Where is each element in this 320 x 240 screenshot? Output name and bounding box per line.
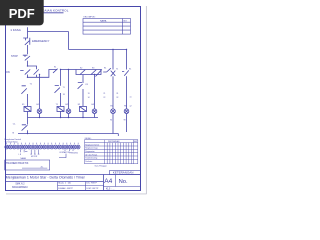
svg-text:K1: K1 — [129, 69, 131, 71]
svg-text:NO: NO — [124, 20, 128, 22]
svg-text:Uji Coba Rangk.: Uji Coba Rangk. — [85, 154, 98, 156]
svg-text:EMERGENCY: EMERGENCY — [32, 39, 50, 43]
svg-text:ON: ON — [6, 71, 10, 74]
svg-text:MOTOR: MOTOR — [31, 156, 38, 158]
svg-text:DIL: RKTP: DIL: RKTP — [87, 183, 98, 185]
svg-text:T1: T1 — [63, 87, 65, 89]
svg-text:x2: x2 — [130, 105, 132, 107]
svg-text:Penilaian: Penilaian — [85, 161, 92, 163]
svg-text:BANJARBARU: BANJARBARU — [12, 186, 28, 189]
svg-text:PDF: PDF — [9, 6, 35, 21]
svg-text:21: 21 — [103, 93, 105, 95]
svg-text:98: 98 — [124, 119, 126, 121]
svg-text:22: 22 — [103, 97, 105, 99]
svg-text:Skala: 1 : tdk: Skala: 1 : tdk — [58, 182, 72, 185]
svg-text:Rangkaian Kontrol: Rangkaian Kontrol — [85, 143, 100, 146]
svg-text:KLS : ....: KLS : .... — [106, 189, 115, 191]
svg-text:NAMA: NAMA — [21, 157, 27, 160]
svg-text:Troubleshooting: Troubleshooting — [85, 157, 97, 160]
svg-text:No.: No. — [119, 179, 128, 185]
svg-text:KELAS :: KELAS : — [85, 137, 92, 140]
svg-text:31: 31 — [116, 93, 118, 95]
svg-text:KELOMPOK :: KELOMPOK : — [84, 17, 97, 19]
svg-text:K1: K1 — [54, 66, 56, 68]
svg-text:96: 96 — [110, 119, 112, 121]
svg-text:K3: K3 — [86, 84, 88, 86]
svg-text:1 FASA: 1 FASA — [10, 28, 21, 32]
svg-text:Terminal Motor: Terminal Motor — [5, 141, 19, 144]
svg-text:Rangkaian Daya: Rangkaian Daya — [85, 148, 98, 150]
svg-text:18: 18 — [63, 94, 65, 96]
svg-text:NAMA: NAMA — [100, 19, 107, 22]
svg-text:KETERANGAN: KETERANGAN — [113, 171, 134, 175]
svg-text:PERTEMUAN: PERTEMUAN — [108, 140, 120, 143]
svg-text:SMK N 2: SMK N 2 — [15, 183, 25, 185]
svg-text:K2: K2 — [80, 67, 82, 69]
svg-text:Guru Pengajar: Guru Pengajar — [95, 165, 108, 168]
svg-text:STOP: STOP — [11, 55, 18, 58]
svg-text:32: 32 — [116, 97, 118, 99]
svg-text:A4: A4 — [104, 178, 112, 185]
svg-text:TRAINER PRAKTIK: TRAINER PRAKTIK — [6, 162, 29, 165]
svg-text:14: 14 — [88, 97, 90, 99]
svg-text:PENGUNCI: PENGUNCI — [70, 152, 79, 154]
svg-text:DIGAM : RKTP: DIGAM : RKTP — [58, 187, 73, 190]
svg-text:20..: 20.. — [41, 166, 44, 168]
svg-text:T1: T1 — [116, 69, 118, 71]
svg-text:Pengawatan: Pengawatan — [85, 150, 94, 153]
svg-text:Menjalankan 1 Motor Star - Del: Menjalankan 1 Motor Star - Delta Otomati… — [6, 176, 86, 180]
svg-text:x1: x1 — [130, 96, 132, 98]
svg-text:DIST: RKTP: DIST: RKTP — [87, 188, 99, 190]
svg-text:13: 13 — [88, 93, 90, 95]
svg-text:K3: K3 — [92, 67, 94, 69]
svg-text:K1: K1 — [104, 68, 106, 70]
